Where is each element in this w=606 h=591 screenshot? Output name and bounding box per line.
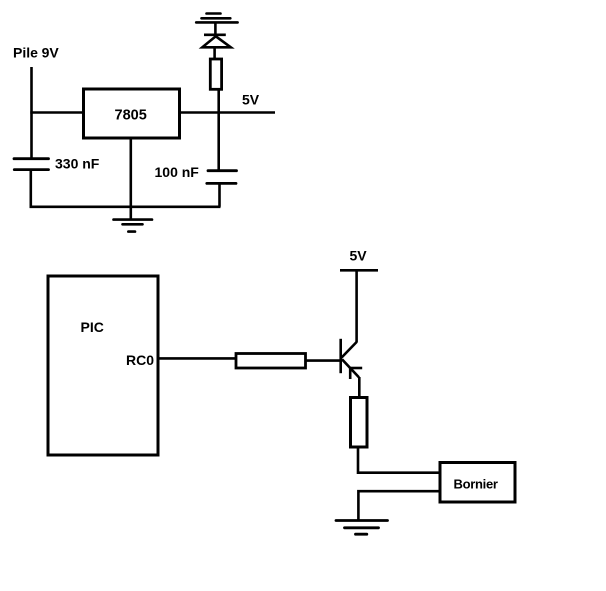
ground (inverted, above LED) — [196, 14, 237, 23]
wire R2 to transistor base — [306, 359, 342, 362]
svg-text:Pile9V: Pile9V — [13, 45, 59, 61]
svg-text:RC0: RC0 — [126, 352, 154, 368]
capacitor C1 330nF (plates) — [14, 159, 49, 170]
power rail 5V tick — [340, 269, 378, 272]
wire ground rail (bottom of supply) — [30, 206, 221, 209]
svg-text:PIC: PIC — [81, 319, 104, 335]
IC U2 PIC (box) — [48, 276, 158, 455]
wire C2 bottom to ground rail — [218, 183, 221, 206]
resistor R2 (horizontal, base resistor) — [236, 354, 306, 369]
wire Bornier to ground — [358, 491, 440, 520]
resistor R3 (vertical, emitter) — [351, 398, 368, 448]
ground (below regulator) — [114, 220, 153, 232]
ground (bottom, Bornier return) — [336, 521, 388, 535]
capacitor C2 100nF (plates) — [207, 171, 237, 184]
svg-text:5V: 5V — [242, 92, 260, 108]
svg-text:7805: 7805 — [115, 108, 147, 124]
wire LED anode to resistor R1 — [213, 47, 216, 59]
wire regulator ground pin — [130, 138, 133, 220]
wire regulator input (horizontal to 7805 left pin) — [30, 111, 83, 114]
connector Bornier — [440, 463, 515, 503]
wire C1 bottom to ground rail — [29, 170, 32, 208]
wire emitter to R3 — [358, 377, 361, 398]
regulator U1 7805 — [84, 89, 180, 138]
svg-text:Bornier: Bornier — [454, 477, 498, 492]
wire R1 to 5V rail and down to C2 — [217, 89, 220, 171]
wire battery positive (vertical from Pile 9V down to C1) — [30, 67, 33, 160]
wire RC0 to R2 — [159, 357, 236, 360]
transistor Q1 — [341, 339, 363, 379]
wire collector to 5V — [355, 270, 358, 342]
wire ground to LED cathode — [214, 22, 217, 35]
LED D1 (cathode bar up, triangle pointing up) — [202, 35, 231, 48]
resistor R1 (vertical, LED series) — [210, 59, 221, 89]
wire R3 to Bornier — [358, 447, 440, 473]
wire 5V output rail — [180, 111, 275, 114]
svg-text:330 nF: 330 nF — [55, 156, 100, 172]
svg-text:5V: 5V — [350, 248, 368, 264]
svg-text:100 nF: 100 nF — [155, 164, 200, 180]
